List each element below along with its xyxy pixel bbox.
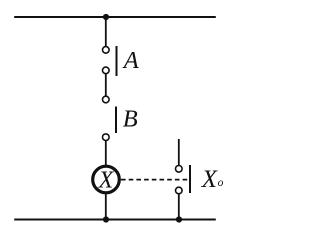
contact A actuator bar xyxy=(116,46,118,76)
contact X0 actuator bar xyxy=(189,165,191,193)
contact B actuator bar xyxy=(115,107,117,134)
wire stub above contact X0 xyxy=(178,139,180,165)
top rail wire xyxy=(14,16,216,18)
svg-text:A: A xyxy=(122,47,140,74)
junction node bottom right xyxy=(176,216,182,222)
wire junction to contact A xyxy=(105,17,107,46)
junction node bottom left xyxy=(103,216,109,222)
wire contact B to lamp X xyxy=(105,141,107,167)
svg-text:B: B xyxy=(123,106,138,133)
contact B bottom terminal xyxy=(103,134,110,141)
bottom rail wire xyxy=(14,219,216,221)
svg-text:o: o xyxy=(218,177,224,189)
contact A bottom terminal xyxy=(103,67,110,74)
junction node top xyxy=(103,14,109,20)
svg-text:X: X xyxy=(201,166,219,193)
dashed mechanical link from lamp X to contact X0 xyxy=(121,179,189,181)
contact X0 bottom terminal xyxy=(176,187,183,194)
contact B top terminal xyxy=(103,96,110,103)
wire lamp X to bottom rail xyxy=(105,193,107,220)
contact A top terminal xyxy=(103,47,110,54)
contact X0 top terminal xyxy=(176,166,183,173)
wire contact A to contact B xyxy=(105,74,107,96)
lamp X circle xyxy=(93,166,120,193)
wire junction to contact X0 xyxy=(178,194,180,220)
svg-text:X: X xyxy=(98,167,115,193)
